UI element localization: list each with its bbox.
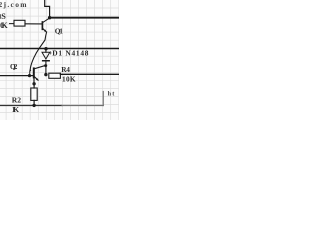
svg-text:0K: 0K xyxy=(0,21,8,30)
svg-text:2j.com: 2j.com xyxy=(0,0,27,9)
svg-text:Q1: Q1 xyxy=(55,26,63,35)
svg-text:R2: R2 xyxy=(12,96,21,105)
svg-text:10K: 10K xyxy=(62,75,76,84)
svg-text:1K: 1K xyxy=(12,105,19,114)
svg-text:S: S xyxy=(1,12,6,21)
svg-text:ht: ht xyxy=(108,91,116,98)
svg-text:Q2: Q2 xyxy=(10,63,18,71)
svg-text:D1 N4148: D1 N4148 xyxy=(52,49,88,58)
svg-text:R4: R4 xyxy=(61,65,70,74)
